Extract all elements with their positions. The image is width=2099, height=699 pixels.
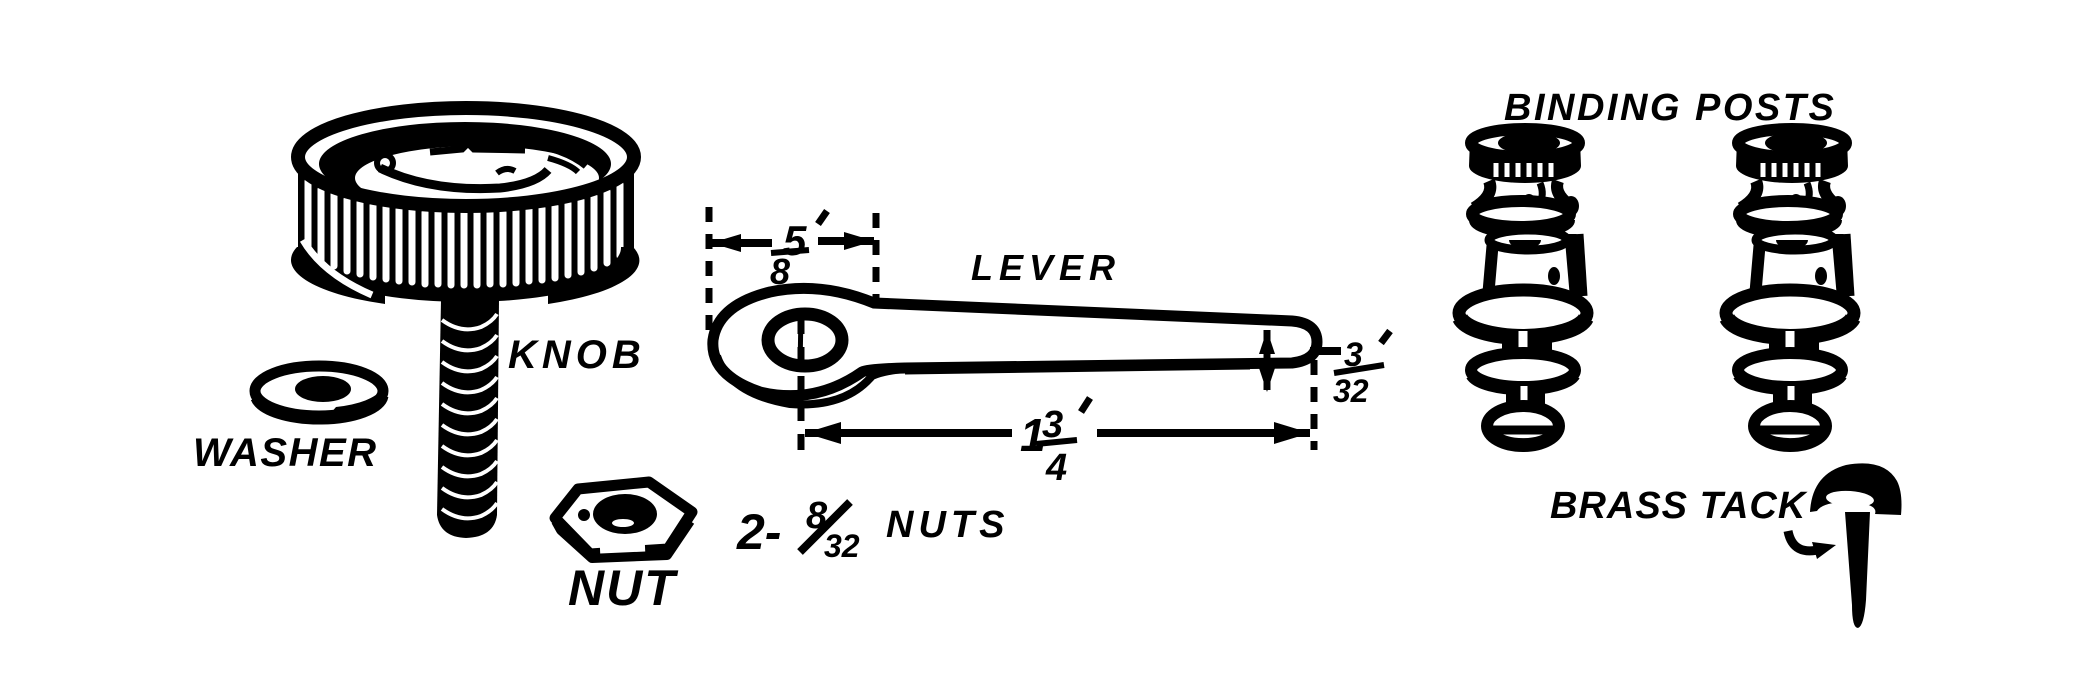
svg-text:KNOB: KNOB <box>508 333 646 377</box>
knob knurl stripes <box>305 181 312 253</box>
dimension 5/8 lines <box>706 207 713 338</box>
svg-text:4: 4 <box>1045 447 1067 489</box>
dimension 1-3/4 lines <box>798 318 805 457</box>
svg-text:8: 8 <box>770 251 790 292</box>
binding post left <box>1459 129 1587 446</box>
knob top rim <box>298 108 634 206</box>
lever body <box>713 288 1317 395</box>
knob knurled band <box>298 157 634 302</box>
lever hole centerline <box>800 312 801 370</box>
svg-text:LEVER: LEVER <box>971 247 1121 288</box>
knob lower-left rim gap <box>303 240 372 295</box>
nut <box>555 482 692 554</box>
svg-text:32: 32 <box>824 528 860 564</box>
svg-text:2-: 2- <box>736 504 781 560</box>
brass tack arrow <box>1788 531 1822 551</box>
svg-text:32: 32 <box>1333 373 1369 409</box>
knob threaded shaft <box>437 300 499 538</box>
knob recess shadow ring <box>319 122 611 210</box>
svg-text:NUTS: NUTS <box>886 504 1009 546</box>
lever hole <box>768 314 842 366</box>
dimension 3/32 lines <box>1264 330 1271 390</box>
svg-text:BINDING POSTS: BINDING POSTS <box>1504 87 1836 129</box>
svg-text:WASHER: WASHER <box>193 431 378 475</box>
knob recess swirls <box>380 168 548 189</box>
binding post right <box>1726 129 1854 446</box>
brass tack <box>1810 463 1902 515</box>
knob lower-left corner <box>291 247 385 304</box>
svg-text:NUT: NUT <box>568 560 679 616</box>
svg-text:BRASS TACK: BRASS TACK <box>1550 485 1808 527</box>
knob lower-right corner <box>548 247 639 304</box>
washer <box>255 366 383 416</box>
